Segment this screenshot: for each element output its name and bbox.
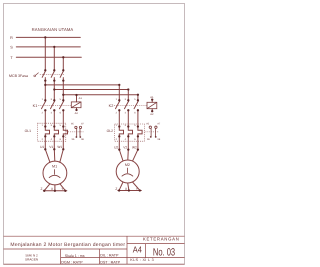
keterangan header bottom line xyxy=(127,243,185,245)
wire tap R to K2 xyxy=(45,84,119,86)
MCB pole1 blade xyxy=(42,71,45,77)
svg-text:OL1: OL1 xyxy=(25,129,32,133)
wire tap T drop xyxy=(137,95,139,101)
contactor K1 pole1 blade xyxy=(42,101,46,109)
coil K2 A1 stub xyxy=(151,100,153,103)
K1 pole2 bottom pin 4 xyxy=(53,109,55,111)
svg-text:A2: A2 xyxy=(150,113,154,116)
wire K2 pole1 to OL2 xyxy=(118,110,120,126)
wire OL1 to M1 terminal V1 xyxy=(53,136,55,149)
motor M2 body xyxy=(116,160,139,183)
K2 pole2 top pin 3 xyxy=(127,99,129,101)
OL1 heater2 top pin xyxy=(53,125,55,127)
MCB pole2 top pin xyxy=(53,69,55,71)
M1 lead U1 into motor xyxy=(45,149,50,162)
node R tap xyxy=(44,36,46,38)
M1 star node Y xyxy=(64,190,66,192)
OL1 heater element 2 xyxy=(54,127,58,137)
wire tap T to K2 xyxy=(63,94,138,96)
wire MCB2 to K1 pole2 xyxy=(53,81,55,101)
OL2 heater element 2 xyxy=(128,127,132,137)
paper size A4 xyxy=(133,245,142,255)
K2 mechanical linkage xyxy=(114,104,147,106)
wire tap S to K2 xyxy=(54,89,128,91)
K2 pole1 bottom pin 2 xyxy=(118,109,120,111)
node tap R corner xyxy=(118,84,120,86)
MCB pole1 top pin xyxy=(44,69,46,71)
svg-text:U2: U2 xyxy=(114,145,118,149)
bottom border line xyxy=(4,263,185,265)
title block xyxy=(4,236,185,264)
wire OL2 to M2 terminal U2 xyxy=(118,136,120,149)
svg-text:K1: K1 xyxy=(33,104,38,108)
MCB label pointer squiggle xyxy=(34,75,36,77)
divider skala/dil xyxy=(99,249,101,264)
M2 lead W2 into motor xyxy=(133,150,138,161)
M2 lead V2 into motor xyxy=(127,150,130,160)
svg-text:SRAGEN: SRAGEN xyxy=(25,257,38,261)
svg-text:A1: A1 xyxy=(79,97,83,100)
svg-text:W2: W2 xyxy=(132,145,137,149)
MCB pole3 top pin xyxy=(62,69,64,71)
phase line S xyxy=(16,46,80,48)
K1 coil pin A1 xyxy=(76,94,78,96)
M1 terminal U1 xyxy=(44,148,46,150)
wire OL1 to M1 terminal U1 xyxy=(44,136,46,149)
K1 pole1 bottom pin 2 xyxy=(44,109,46,111)
K1 pole3 bottom pin 6 xyxy=(62,109,64,111)
wire K2 pole3 to OL2 xyxy=(137,110,139,126)
MCB pole1 bottom pin xyxy=(44,79,46,81)
svg-text:No. 03: No. 03 xyxy=(153,247,175,259)
M2 star node Y xyxy=(139,189,141,191)
M1 star node X xyxy=(54,190,56,192)
title block top line xyxy=(4,235,185,237)
M1 lead V1 into motor xyxy=(53,149,56,161)
M2 star node Z xyxy=(118,189,120,191)
M2 bottom lead to Z xyxy=(119,182,123,190)
M1 terminal V1 xyxy=(53,148,55,150)
mid row line xyxy=(61,257,185,259)
M2 star point bar xyxy=(118,190,142,192)
svg-text:RANGKAIAN UTAMA: RANGKAIAN UTAMA xyxy=(32,27,74,32)
svg-text:A4: A4 xyxy=(133,245,142,255)
K1 pole1 top pin 1 xyxy=(44,99,46,101)
wire K2 pole2 to OL2 xyxy=(127,110,129,126)
K1 mechanical linkage xyxy=(38,104,71,106)
K2 coil pin A2 xyxy=(151,110,153,112)
svg-text:K2: K2 xyxy=(109,104,114,108)
MCB pole1 lower stub xyxy=(44,78,46,81)
node tap R left xyxy=(44,84,46,86)
OL2 aux contact 95-96 (NC) xyxy=(149,126,152,138)
M1 lead W1 into motor xyxy=(60,149,64,162)
OL1 aux contact 95-96 (NC) xyxy=(75,126,78,138)
svg-text:R: R xyxy=(10,36,13,40)
coil K2 A2 stub xyxy=(151,109,153,112)
motor M2 3-phase symbol xyxy=(122,168,133,177)
dashed linkages and boxes xyxy=(37,75,158,142)
contactor K2 pole3 blade xyxy=(134,101,138,109)
svg-text:DIL : RATP: DIL : RATP xyxy=(100,254,119,258)
svg-text:Menjalankan 2 Motor Bergantian: Menjalankan 2 Motor Bergantian dengan ti… xyxy=(10,242,125,248)
wire R drop to MCB pole1 xyxy=(44,37,46,70)
wire K1 pole1 to OL1 xyxy=(44,110,46,126)
svg-text:MCB 3Fasa: MCB 3Fasa xyxy=(9,74,28,78)
OL2 aux contact 97-98 (NO) xyxy=(155,126,157,138)
OL2 heater3 bottom pin xyxy=(137,135,139,137)
OL1 body dashed box xyxy=(37,123,65,141)
MCB pole2 lower stub xyxy=(53,78,55,81)
wire K1 pole2 to OL1 xyxy=(53,110,55,126)
OL2 heater1 top pin xyxy=(118,125,120,127)
M1 bottom lead to Z xyxy=(44,184,50,191)
coil K1 A1 stub xyxy=(76,95,78,102)
OL1 heater1 bottom pin xyxy=(44,135,46,137)
OL2 heater2 bottom pin xyxy=(127,135,129,137)
OL2 heater3 top pin xyxy=(137,125,139,127)
OL2 heater element 3 xyxy=(138,127,142,137)
svg-text:S: S xyxy=(10,45,13,49)
MCB pole2 blade xyxy=(51,71,54,77)
wire T drop to MCB pole3 xyxy=(62,57,64,70)
OL1 heater2 bottom pin xyxy=(53,135,55,137)
M2 bottom lead to X xyxy=(128,183,129,190)
wire K1 pole3 to OL1 xyxy=(62,110,64,126)
sheet number No. 03 xyxy=(153,247,175,259)
text labels xyxy=(32,27,74,32)
OL2 body dashed box xyxy=(115,124,145,141)
svg-text:KLS : XI L 3: KLS : XI L 3 xyxy=(130,258,154,262)
OL1 heater3 top pin xyxy=(62,125,64,127)
K2 coil pin A1 xyxy=(151,98,153,100)
node K1 coil tap xyxy=(75,94,77,96)
OL2 heater1 bottom pin xyxy=(118,135,120,137)
K2 pole1 top pin 1 xyxy=(118,99,120,101)
M1 star node Z xyxy=(43,190,45,192)
OL1 heater element 3 xyxy=(63,127,67,137)
svg-text:M2: M2 xyxy=(125,163,130,167)
contactor K2 pole1 blade xyxy=(116,101,120,109)
M1 bottom lead to X xyxy=(54,185,56,191)
phase line T xyxy=(16,56,81,58)
K1 pole3 top pin 5 xyxy=(62,99,64,101)
wire MCB1 to K1 pole1 xyxy=(44,81,46,101)
divider A4/No xyxy=(145,244,147,258)
svg-text:U1: U1 xyxy=(40,145,44,149)
M2 bottom lead to Y xyxy=(133,182,140,190)
node tap T left xyxy=(62,94,64,96)
MCB pole3 lower stub xyxy=(62,78,64,81)
coil K2 box xyxy=(147,102,157,108)
wire OL1 to M1 terminal W1 xyxy=(62,136,64,149)
MCB pole2 bottom pin xyxy=(53,79,55,81)
M2 lead U2 into motor xyxy=(119,150,123,161)
OL1 heater3 bottom pin xyxy=(62,135,64,137)
MCB mechanical linkage xyxy=(40,74,65,76)
M2 star node X xyxy=(128,189,130,191)
svg-text:A2: A2 xyxy=(75,112,79,115)
node S tap xyxy=(53,46,55,48)
svg-text:A1: A1 xyxy=(150,96,154,99)
M2 terminal W2 xyxy=(137,148,139,150)
motor M1 body xyxy=(43,161,67,185)
svg-text:DST : RATP: DST : RATP xyxy=(100,260,120,264)
divider keterangan block xyxy=(126,236,128,264)
svg-text:DGM : RATP: DGM : RATP xyxy=(61,260,83,264)
phase line R xyxy=(16,36,80,38)
OL2 heater2 top pin xyxy=(127,125,129,127)
M1 bottom lead to Y xyxy=(60,184,65,191)
K2 pole3 top pin 5 xyxy=(137,99,139,101)
wire S drop to MCB pole2 xyxy=(53,47,55,70)
K2 pole2 bottom pin 4 xyxy=(127,109,129,111)
svg-text:Z: Z xyxy=(115,187,117,191)
K2 pole3 bottom pin 6 xyxy=(137,109,139,111)
node T tap xyxy=(62,56,64,58)
node tap T corner xyxy=(137,94,139,96)
coil K1 A2 stub xyxy=(76,108,78,110)
wire OL2 to M2 terminal V2 xyxy=(127,136,129,149)
OL1 heater element 1 xyxy=(45,127,49,137)
svg-text:V1: V1 xyxy=(49,145,53,149)
M1 star point bar xyxy=(43,190,67,192)
M1 terminal W1 xyxy=(62,148,64,150)
M2 terminal V2 xyxy=(127,148,129,150)
OL2 trip linkage xyxy=(145,131,159,133)
svg-text:KETERANGAN: KETERANGAN xyxy=(143,237,180,242)
K1 pole2 top pin 3 xyxy=(53,99,55,101)
wire MCB3 to K1 pole3 xyxy=(62,81,64,101)
page frame (decorative) xyxy=(4,4,185,265)
M2 terminal U2 xyxy=(118,148,120,150)
OL1 trip linkage xyxy=(66,131,84,133)
svg-text:Skala 1 : ms: Skala 1 : ms xyxy=(65,254,85,258)
motor M1 3-phase symbol xyxy=(49,169,60,178)
svg-text:Z: Z xyxy=(41,187,43,191)
coil K1 box xyxy=(71,102,81,108)
wire OL2 to M2 terminal W2 xyxy=(137,136,139,149)
svg-text:OL2: OL2 xyxy=(107,129,114,133)
contactor K2 pole2 blade xyxy=(125,101,129,109)
OL1 aux contact 97-98 (NO) xyxy=(79,126,81,138)
wire tap R drop xyxy=(118,85,120,100)
contactor K1 pole3 blade xyxy=(60,101,64,109)
OL1 heater1 top pin xyxy=(44,125,46,127)
node tap S corner xyxy=(127,88,129,90)
wire tap S drop xyxy=(127,90,129,101)
svg-text:V2: V2 xyxy=(123,145,127,149)
contactor K1 pole2 blade xyxy=(51,101,55,109)
OL2 heater element 1 xyxy=(119,127,123,137)
svg-text:M1: M1 xyxy=(52,165,57,169)
junction dots xyxy=(43,36,153,192)
divider smk/skala xyxy=(60,249,62,264)
node tap S left xyxy=(53,88,55,90)
K1 coil pin A2 xyxy=(75,109,77,111)
title row bottom line xyxy=(4,248,128,250)
svg-text:W1: W1 xyxy=(57,145,62,149)
MCB pole3 bottom pin xyxy=(62,79,64,81)
MCB pole3 blade xyxy=(60,71,63,77)
